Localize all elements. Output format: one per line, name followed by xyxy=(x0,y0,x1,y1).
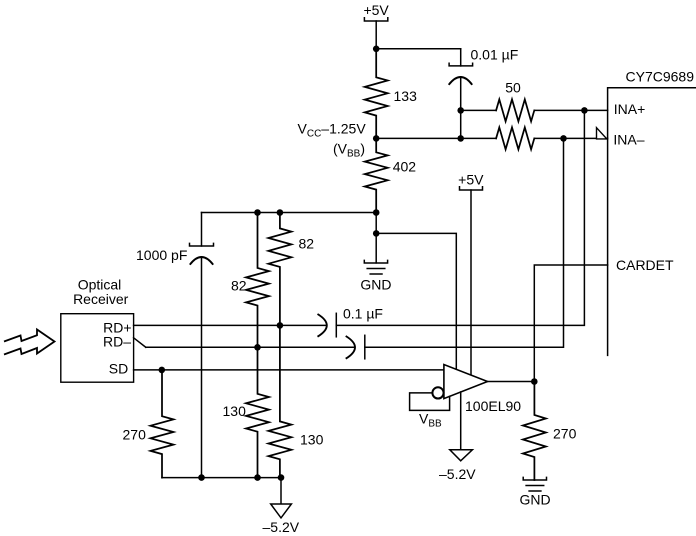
resistor 270 (right) xyxy=(523,382,546,481)
svg-text:CARDET: CARDET xyxy=(616,257,674,273)
svg-text:+5V: +5V xyxy=(363,2,389,18)
junction INA+ net xyxy=(581,107,588,114)
junction RD+ / 82-130 right xyxy=(277,322,284,329)
inversion bubble on buffer input xyxy=(432,387,443,398)
-5.2V supply symbol (below buffer) xyxy=(439,450,476,482)
junction rail / 402 xyxy=(373,209,380,216)
svg-text:0.1 µF: 0.1 µF xyxy=(343,306,383,322)
svg-text:270: 270 xyxy=(123,427,147,443)
junction buffer output xyxy=(531,378,538,385)
svg-text:INA+: INA+ xyxy=(614,101,646,117)
svg-text:+5V: +5V xyxy=(458,172,484,188)
svg-text:–5.2V: –5.2V xyxy=(263,519,300,535)
resistor 82 (right) xyxy=(268,213,291,326)
node A junction (top of 133 / cap feed) xyxy=(373,46,380,53)
svg-text:270: 270 xyxy=(553,426,577,442)
wire rail (402 bottom across 82s to 1000pF) xyxy=(202,212,377,214)
wire RD- cap to INA- junction xyxy=(365,138,564,347)
wire cap lead joining INA+ line to VBB line xyxy=(460,110,462,138)
junction RD- / 82-130 left xyxy=(254,344,261,351)
svg-text:82: 82 xyxy=(231,278,247,294)
ground GND (right) xyxy=(519,477,550,507)
wire GND node down to ground symbol xyxy=(375,233,377,263)
wire +5V #2 down to buffer xyxy=(470,190,472,375)
input marker triangle at INA- xyxy=(597,128,607,139)
svg-text:INA–: INA– xyxy=(613,132,644,148)
resistor 133 (VCC divider top) xyxy=(365,49,388,139)
wire RD+ cap to INA+ junction xyxy=(336,110,584,325)
resistor 130 (right) xyxy=(268,325,291,477)
resistor 50 (lower, INA-) xyxy=(496,127,534,149)
svg-text:133: 133 xyxy=(394,88,418,104)
VBB feedback loop wire xyxy=(410,393,450,411)
svg-text:402: 402 xyxy=(393,159,417,175)
wire 50 lower to INA- pin xyxy=(534,137,607,139)
wire node B to resistor 50 upper xyxy=(461,109,496,111)
wire CARDET net (output up to chip) xyxy=(534,265,607,382)
wire +5V down to node A xyxy=(375,21,377,49)
junction cap/VBB line xyxy=(457,135,464,142)
svg-text:82: 82 xyxy=(299,236,315,252)
svg-text:GND: GND xyxy=(519,492,550,508)
svg-text:CY7C9689: CY7C9689 xyxy=(626,68,695,84)
-5.2V supply symbol (bottom left) xyxy=(263,478,300,535)
ground GND (below 402) xyxy=(360,260,391,292)
wire RD- pin jog from box xyxy=(134,338,146,348)
svg-text:RD–: RD– xyxy=(103,334,131,350)
svg-text:130: 130 xyxy=(300,432,324,448)
wire node A to capacitor C 0.01uF xyxy=(376,48,461,50)
wire buffer VEE down xyxy=(460,392,462,449)
op-amp buffer 100EL90 xyxy=(444,365,488,399)
capacitor 0.1 uF (RD-) xyxy=(346,335,365,359)
wire buffer output xyxy=(488,381,535,383)
svg-text:Receiver: Receiver xyxy=(73,291,129,307)
svg-text:130: 130 xyxy=(223,403,247,419)
resistor 402 (VCC divider bottom) xyxy=(365,138,388,212)
wire bottom rail xyxy=(162,477,281,479)
+5V supply symbol (above 100EL90) xyxy=(458,172,484,191)
node VBB junction (divider mid) xyxy=(373,135,380,142)
resistor 50 (upper, INA+) xyxy=(496,99,534,121)
junction bottom rail / 130 left xyxy=(254,474,261,481)
resistor 270 (left) xyxy=(151,370,174,478)
svg-text:SD: SD xyxy=(109,361,128,377)
junction INA- net xyxy=(560,135,567,142)
junction bottom rail / 1000pF xyxy=(198,474,205,481)
svg-text:100EL90: 100EL90 xyxy=(465,398,521,414)
+5V supply symbol (top, above R 133) xyxy=(363,2,389,21)
resistor 130 (left) xyxy=(246,347,269,477)
junction bottom rail / 130 right xyxy=(278,474,285,481)
chip CY7C9689 outline xyxy=(608,88,696,356)
svg-text:–5.2V: –5.2V xyxy=(439,466,476,482)
wire SD from box to buffer input xyxy=(134,369,444,371)
wire RD- to coupling cap xyxy=(146,346,354,348)
wire 50 upper to INA+ junction and chip pin xyxy=(534,109,607,111)
junction rail / 82 right xyxy=(277,209,284,216)
optical input arrow xyxy=(4,330,55,355)
resistor 82 (left) xyxy=(246,213,269,348)
svg-text:GND: GND xyxy=(360,277,391,293)
junction GND node xyxy=(373,230,380,237)
wire VBB node to resistor 50 lower xyxy=(376,137,496,139)
wire GND node right and down to buffer top xyxy=(376,233,456,369)
wire 402 bottom to GND node xyxy=(375,213,377,234)
svg-text:1000 pF: 1000 pF xyxy=(136,247,187,263)
svg-text:50: 50 xyxy=(505,80,521,96)
capacitor 0.1 uF (RD+) xyxy=(318,313,337,337)
capacitor 1000 pF xyxy=(190,213,214,478)
junction SD / 270 left xyxy=(159,367,166,374)
node B junction (cap bottom on INA+ line) xyxy=(457,107,464,114)
junction rail / 82 left xyxy=(254,209,261,216)
capacitor 0.01 uF (decoupling) xyxy=(449,49,473,111)
svg-text:0.01 µF: 0.01 µF xyxy=(471,47,519,63)
optical receiver box U1 xyxy=(61,314,134,383)
wire RD+ from box to coupling cap xyxy=(134,324,327,326)
